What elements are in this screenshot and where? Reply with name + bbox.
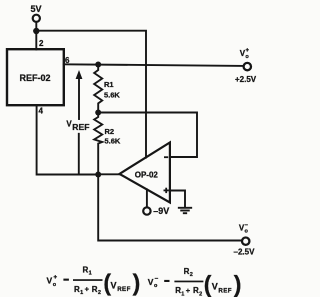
svg-text:2: 2	[190, 272, 193, 278]
formula Vo+ = R1/(R1+R2)(VREF)	[47, 266, 141, 297]
svg-text:o: o	[245, 229, 249, 235]
svg-text:+: +	[246, 48, 250, 54]
svg-text:+: +	[53, 274, 57, 281]
svg-text:–: –	[155, 275, 159, 282]
svg-text:1: 1	[181, 291, 184, 297]
svg-text:5V: 5V	[30, 4, 41, 14]
svg-text:V: V	[148, 277, 154, 287]
junction dot output rail node	[95, 172, 101, 178]
svg-text:V: V	[212, 282, 218, 292]
wire pin 6 to +2.5V output terminal	[64, 64, 244, 66]
svg-text:+: +	[85, 285, 90, 294]
wire 5V terminal to REF-02 pin 2	[35, 23, 37, 50]
wire op-amp V- supply to -9V terminal	[146, 189, 148, 206]
svg-text:5.6K: 5.6K	[105, 137, 121, 146]
-9V supply terminal	[143, 206, 169, 216]
svg-text:REF: REF	[117, 286, 131, 293]
ground symbol	[179, 208, 191, 213]
wire non-inverting input to ground	[171, 191, 185, 208]
formula Vo- = R2/(R1+R2)(VREF)	[148, 267, 242, 297]
op-amp U2 OP-02	[120, 143, 170, 203]
output terminal Vo-	[239, 223, 250, 245]
svg-text:R: R	[74, 285, 80, 294]
op-amp inverting input label -	[164, 156, 168, 158]
svg-text:2: 2	[98, 290, 101, 296]
voltage reference U1 REF-02	[7, 49, 64, 105]
svg-text:–2.5V: –2.5V	[234, 248, 256, 257]
svg-text:OP-02: OP-02	[135, 171, 159, 180]
svg-text:–9V: –9V	[153, 206, 169, 216]
svg-text:REF-02: REF-02	[19, 73, 50, 83]
svg-text:2: 2	[39, 39, 44, 48]
resistor R2	[94, 113, 102, 175]
junction dot 5V node	[33, 28, 39, 34]
svg-text:R2: R2	[105, 127, 115, 136]
svg-text:R: R	[83, 266, 89, 275]
output terminal Vo+	[240, 48, 251, 70]
resistor R1	[94, 65, 102, 113]
svg-text:o: o	[53, 282, 57, 288]
annotation arrow VREF	[76, 70, 83, 174]
svg-text:+2.5V: +2.5V	[235, 75, 257, 84]
svg-text:REF: REF	[218, 287, 232, 294]
svg-text:R: R	[184, 267, 190, 276]
wire divider midpoint to op-amp inverting input	[98, 113, 197, 158]
svg-text:1: 1	[80, 290, 83, 296]
5V supply terminal	[30, 4, 41, 22]
svg-text:): )	[133, 270, 141, 296]
svg-text:R1: R1	[104, 80, 114, 89]
svg-text:5.6K: 5.6K	[104, 91, 120, 100]
svg-text:R: R	[175, 286, 181, 295]
svg-text:2: 2	[199, 291, 202, 297]
svg-text:4: 4	[39, 107, 44, 116]
wire REF-02 pin 4 down to output rail	[37, 105, 99, 174]
svg-text:V: V	[47, 276, 53, 286]
wire rail to op-amp output	[98, 173, 119, 175]
svg-text:o: o	[154, 283, 158, 289]
svg-text:VREF: VREF	[66, 119, 89, 132]
wire 5V node to op-amp V+ supply	[36, 31, 146, 158]
svg-text:+: +	[186, 286, 191, 295]
op-amp non-inverting input label +	[164, 188, 169, 193]
junction dot R1 top node	[95, 62, 101, 68]
svg-text:): )	[234, 271, 242, 297]
wire rail to -2.5V output terminal	[98, 175, 241, 241]
svg-text:o: o	[245, 54, 249, 60]
svg-text:R: R	[193, 286, 199, 295]
svg-text:–: –	[245, 223, 249, 229]
svg-text:(: (	[204, 271, 212, 297]
junction dot divider midpoint node	[95, 110, 101, 116]
svg-text:R: R	[92, 285, 98, 294]
svg-text:V: V	[111, 280, 117, 290]
svg-text:1: 1	[89, 271, 92, 277]
